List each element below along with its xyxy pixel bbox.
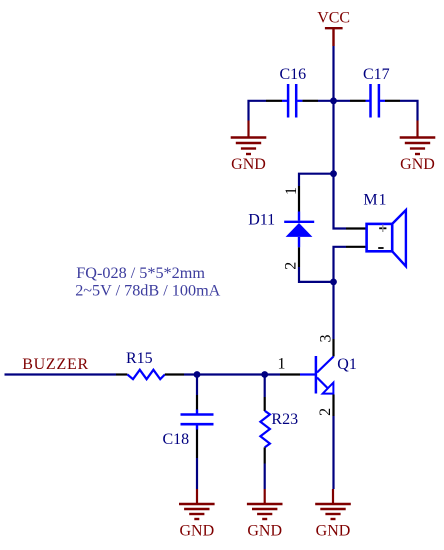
svg-text:GND: GND — [400, 156, 435, 173]
svg-text:R15: R15 — [126, 350, 153, 367]
svg-text:BUZZER: BUZZER — [22, 356, 89, 373]
svg-text:C17: C17 — [363, 66, 390, 83]
svg-text:GND: GND — [231, 156, 266, 173]
svg-text:FQ-028 / 5*5*2mm: FQ-028 / 5*5*2mm — [76, 264, 205, 282]
svg-text:3: 3 — [317, 335, 334, 343]
svg-text:1: 1 — [278, 356, 286, 373]
svg-text:VCC: VCC — [317, 10, 350, 27]
svg-text:2: 2 — [283, 262, 300, 270]
svg-text:M1: M1 — [363, 192, 387, 209]
svg-text:GND: GND — [179, 523, 214, 540]
svg-text:GND: GND — [316, 523, 351, 540]
svg-text:2: 2 — [317, 408, 334, 416]
svg-text:1: 1 — [283, 187, 300, 195]
svg-text:GND: GND — [247, 523, 282, 540]
svg-text:Q1: Q1 — [337, 356, 357, 373]
svg-text:2~5V / 78dB / 100mA: 2~5V / 78dB / 100mA — [75, 281, 220, 299]
svg-text:D11: D11 — [248, 211, 275, 228]
svg-text:C16: C16 — [280, 66, 307, 83]
svg-text:C18: C18 — [163, 431, 190, 448]
svg-text:R23: R23 — [271, 411, 298, 428]
